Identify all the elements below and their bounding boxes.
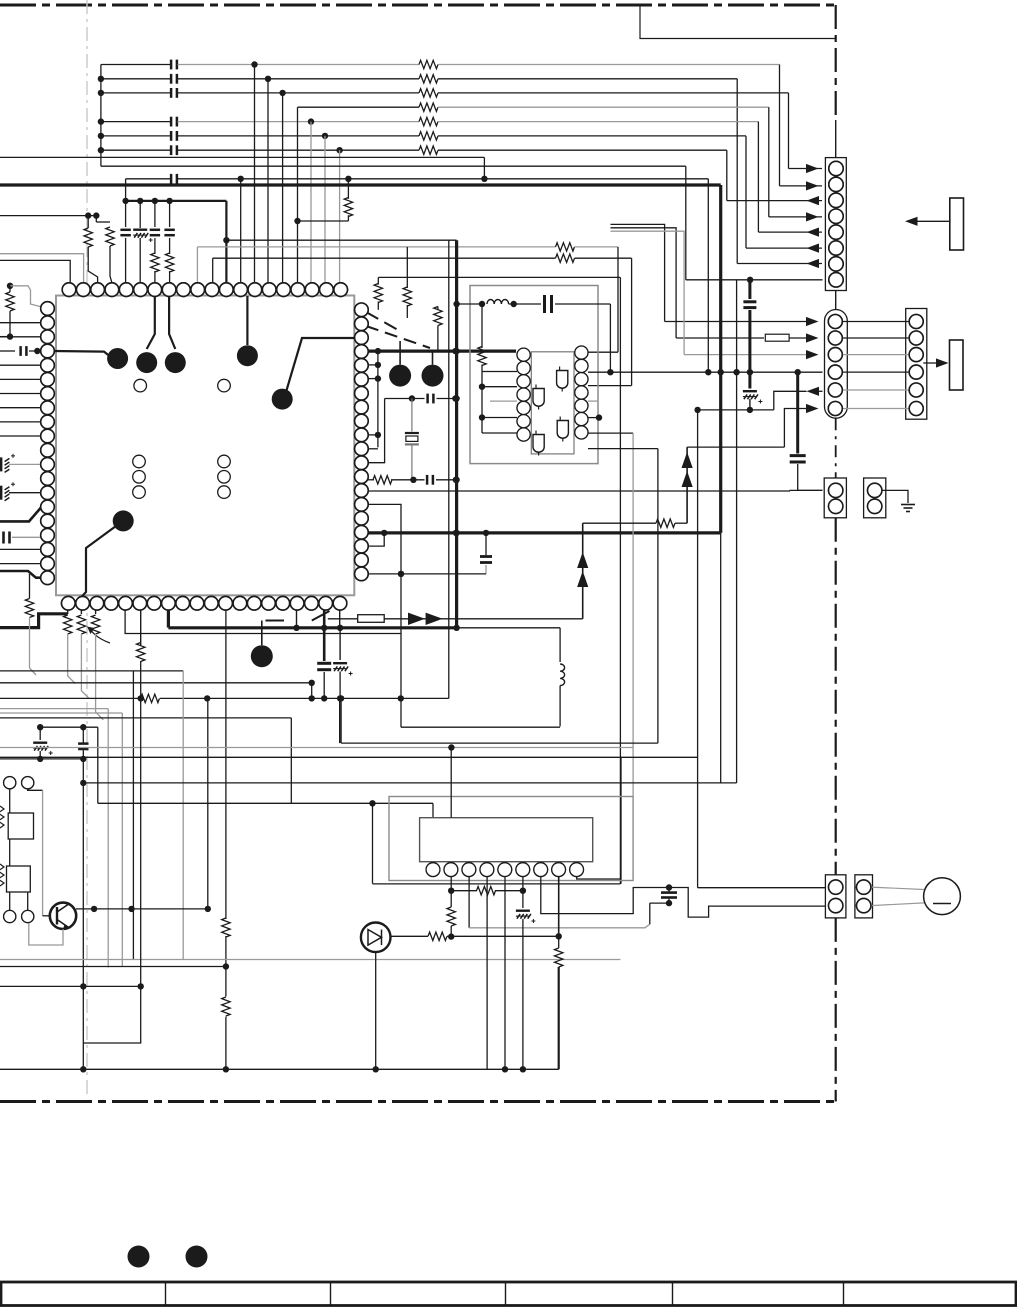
junction J43 bbox=[453, 348, 459, 354]
wire line7 left bbox=[101, 149, 171, 151]
wire bbox=[558, 936, 560, 948]
junction J55 bbox=[718, 369, 724, 375]
crystal X1 bbox=[405, 432, 419, 434]
wire net34 bbox=[82, 759, 84, 1069]
wire (heavy) bbox=[0, 507, 47, 522]
wire line1 left bbox=[101, 64, 171, 66]
wire bbox=[391, 935, 429, 937]
wire bbox=[583, 522, 656, 524]
wire net16 end bbox=[790, 489, 823, 492]
wire line5 drop bbox=[757, 122, 759, 233]
resistor R2 bbox=[419, 75, 438, 83]
resistor R30 bbox=[555, 948, 563, 967]
wire row2 bbox=[611, 228, 677, 338]
wire from block bbox=[917, 220, 949, 222]
adjust arrow bbox=[90, 629, 110, 643]
connector CN3 (6-pin header) bbox=[906, 309, 927, 420]
wire line1 right bbox=[438, 64, 780, 66]
shield boundary (gray dash-dot) bbox=[86, 0, 88, 1099]
wire to U1 pin bbox=[0, 548, 48, 550]
wire to CN4 bbox=[798, 464, 823, 490]
wire bbox=[609, 304, 611, 372]
wire bbox=[29, 350, 48, 352]
wire line2 drop bbox=[736, 79, 738, 264]
wire bbox=[559, 686, 561, 727]
right dash-dot border segment bbox=[835, 418, 837, 478]
wire (heavy) bbox=[558, 967, 560, 1069]
junction J85 bbox=[448, 888, 454, 894]
junction J18 bbox=[93, 212, 99, 218]
wire bbox=[522, 919, 524, 1069]
wire net37 bbox=[0, 966, 226, 968]
capacitor C29 bbox=[661, 891, 677, 894]
wire net13b bbox=[575, 246, 619, 248]
U2 inner frame bbox=[531, 352, 574, 454]
junction J75 bbox=[37, 756, 43, 762]
wire vdd row bbox=[126, 200, 227, 202]
wire to U1 pin bbox=[0, 378, 48, 380]
wire line5 left bbox=[101, 121, 171, 123]
wire U3 pin6 bbox=[522, 877, 524, 909]
wire line5 mid bbox=[178, 121, 420, 123]
wire net10 right bbox=[178, 178, 709, 180]
wire bbox=[140, 698, 142, 986]
wire kink bbox=[96, 634, 104, 720]
wire stub (heavy) bbox=[167, 610, 170, 628]
capacitor C16 bbox=[2, 532, 5, 544]
wire CN2-CN3 link bbox=[842, 389, 909, 391]
junction J73 bbox=[37, 724, 43, 730]
wire to U3 pin2 bbox=[450, 748, 452, 818]
wire net18 (heavy) bbox=[368, 531, 721, 534]
junction J65 bbox=[309, 680, 315, 686]
arrowhead out of CN1 pin bbox=[807, 196, 820, 205]
junction J27 bbox=[375, 348, 381, 354]
wire U2 out bbox=[588, 432, 633, 434]
wire with polarity arrows bbox=[686, 447, 688, 523]
wire bbox=[411, 444, 413, 479]
wire bbox=[27, 892, 29, 910]
junction J14 bbox=[238, 176, 244, 182]
wire line7 drop bbox=[726, 150, 728, 200]
junction J19 bbox=[122, 198, 128, 204]
junction J88 bbox=[502, 1066, 508, 1072]
resistor R4 bbox=[419, 103, 438, 111]
wire bbox=[39, 727, 41, 740]
wire bbox=[87, 216, 89, 228]
wire net8 drop bbox=[483, 157, 485, 178]
wire row1 bbox=[611, 224, 665, 321]
wire drop to U1 pin bbox=[240, 179, 242, 283]
junction J52 bbox=[607, 369, 613, 375]
junction J17 bbox=[85, 212, 91, 218]
wire bbox=[298, 220, 349, 222]
wire bbox=[377, 302, 379, 310]
junction J61 bbox=[293, 625, 299, 631]
junction J53 bbox=[596, 414, 602, 420]
wire bbox=[12, 536, 44, 538]
junction J71 bbox=[205, 906, 211, 912]
junction J54 bbox=[705, 369, 711, 375]
wire CN1 to CN2 bbox=[835, 291, 837, 310]
wire stub bbox=[368, 378, 378, 380]
block connector B2 bbox=[950, 198, 964, 250]
wire net26 bbox=[0, 670, 183, 672]
resistor R6 bbox=[419, 132, 438, 140]
wire line1 mid bbox=[178, 64, 420, 66]
resistor R14 bbox=[403, 287, 411, 306]
wire W2 bbox=[225, 936, 227, 997]
junction J41 bbox=[398, 571, 404, 577]
junction J35 bbox=[453, 477, 459, 483]
wire stub bbox=[368, 533, 384, 546]
junction J81 bbox=[448, 744, 454, 750]
wire bbox=[495, 890, 523, 892]
wire to U1 pin2 bbox=[0, 254, 84, 283]
junction J46 bbox=[453, 530, 459, 536]
wire U2 out bbox=[588, 371, 610, 373]
wire net31 drop bbox=[182, 671, 184, 960]
wire U1 interior bbox=[246, 296, 248, 345]
wire net8 bbox=[0, 156, 484, 158]
junction J3 bbox=[98, 118, 104, 124]
resistor R10 bbox=[106, 227, 114, 246]
wire bbox=[323, 672, 325, 698]
wire row1 to CN2 bbox=[665, 321, 810, 323]
junction J56 bbox=[733, 369, 739, 375]
wire cap return down bbox=[649, 903, 651, 924]
capacitor C13 bbox=[19, 346, 22, 356]
arrowhead row2 bbox=[806, 333, 819, 342]
shield box around U3 bbox=[389, 797, 633, 881]
junction J4 bbox=[98, 133, 104, 139]
wire U2 out bbox=[588, 417, 599, 419]
wire bbox=[391, 479, 425, 481]
wire bbox=[668, 888, 670, 893]
wire bbox=[9, 839, 11, 866]
capacitor C19 bbox=[480, 555, 492, 558]
junction J31 bbox=[375, 432, 381, 438]
junction J7 bbox=[265, 76, 271, 82]
ground bbox=[901, 504, 915, 506]
capacitor C14 (electrolytic) bbox=[0, 457, 2, 471]
wire U1 interior bbox=[53, 351, 112, 358]
U1 top pins bbox=[62, 283, 76, 297]
wire Q1 collector net bbox=[76, 908, 208, 910]
wire bbox=[437, 326, 439, 352]
wire bbox=[140, 610, 142, 645]
wire bbox=[450, 926, 452, 937]
resistor R26 bbox=[0, 806, 4, 828]
junction J9 bbox=[308, 118, 314, 124]
wire net28 bbox=[0, 697, 140, 699]
wire bus drop to U1 pin bbox=[339, 150, 341, 283]
wire bbox=[451, 890, 477, 892]
wire bbox=[377, 277, 379, 284]
wire bbox=[485, 565, 487, 574]
wire line2 right bbox=[438, 78, 737, 80]
wire motor link- bbox=[871, 903, 924, 906]
test point TP6 bbox=[113, 510, 134, 531]
wire stub bbox=[339, 610, 341, 628]
junction J20 bbox=[137, 198, 143, 204]
capacitor C28 (electrolytic) bbox=[516, 910, 530, 912]
wire Q1 emitter bbox=[29, 923, 63, 945]
wire to U2 bbox=[490, 400, 517, 402]
wire to U1 pin bbox=[0, 364, 48, 366]
polarity arrow A4 bbox=[577, 571, 588, 587]
wire bbox=[29, 574, 31, 599]
IC U2 (dual comparator) bbox=[517, 348, 530, 361]
wire net22 bbox=[657, 449, 659, 743]
wire net11 tail bbox=[720, 533, 722, 783]
wire bbox=[411, 399, 413, 432]
junction J39 bbox=[453, 530, 459, 536]
resistor R5 bbox=[419, 117, 438, 125]
wire to ground bbox=[882, 490, 908, 503]
wire net35 bbox=[98, 802, 433, 804]
resistor R34 bbox=[222, 918, 230, 937]
wire net30 drop bbox=[121, 713, 123, 967]
wire net33 drop bbox=[290, 718, 292, 803]
connector CN1 (8-pin) bbox=[825, 158, 846, 291]
resistor R25 bbox=[141, 694, 160, 702]
wire with polarity arrows bbox=[582, 523, 584, 619]
capacitor C12 bbox=[164, 229, 174, 232]
dashed link to resonator X1 (2) bbox=[366, 326, 430, 348]
wire bbox=[0, 215, 96, 217]
wire line7 right bbox=[438, 149, 727, 151]
U2 gate A bbox=[533, 389, 544, 407]
resistor R27 bbox=[0, 864, 4, 886]
connector CN8 (2-pin) bbox=[825, 875, 846, 918]
right dash-dot border segment bbox=[835, 518, 837, 875]
inductor L2 bbox=[560, 664, 565, 686]
wire (heavy) bbox=[796, 372, 799, 453]
wire net31 bbox=[0, 717, 291, 719]
resistor R20 bbox=[64, 615, 72, 634]
wire stub bbox=[368, 448, 378, 450]
capacitor C6 bbox=[170, 131, 173, 141]
wire net21 bbox=[632, 433, 634, 796]
wire bbox=[555, 303, 610, 305]
transistor Q1 bbox=[50, 903, 76, 929]
junction J77 bbox=[80, 780, 86, 786]
capacitor C21 bbox=[743, 300, 756, 303]
wire row5 bbox=[774, 391, 807, 410]
junction J10 bbox=[322, 133, 328, 139]
wire bbox=[40, 726, 98, 728]
wire bbox=[509, 303, 541, 305]
junction J12 bbox=[294, 218, 300, 224]
wire net39 bbox=[469, 924, 650, 928]
wire stub bbox=[80, 610, 82, 614]
wire net11 drop (heavy) bbox=[719, 185, 722, 372]
junction J37 bbox=[398, 695, 404, 701]
resistor R24 bbox=[137, 643, 145, 662]
switch block S2 bbox=[8, 813, 33, 839]
wire cap return bbox=[650, 902, 669, 904]
inductor L1 bbox=[487, 300, 509, 305]
capacitor C2 bbox=[170, 74, 173, 84]
wire net9 bbox=[101, 165, 686, 167]
wire to U1 pin bbox=[0, 393, 48, 395]
wire line3 into CN1 bbox=[789, 168, 823, 170]
junction J13 bbox=[747, 277, 753, 283]
junction J47 bbox=[453, 625, 459, 631]
wire bbox=[450, 877, 452, 891]
wire bbox=[154, 271, 156, 283]
wire bbox=[125, 201, 127, 227]
wire to U1 pin bbox=[0, 563, 48, 565]
wire bbox=[437, 307, 439, 310]
junction J28 bbox=[452, 348, 458, 354]
wire bbox=[42, 790, 44, 916]
wire bbox=[154, 201, 156, 227]
junction J22 bbox=[166, 198, 172, 204]
resistor R13 bbox=[374, 284, 382, 303]
junction J15 bbox=[345, 176, 351, 182]
test point TP5 bbox=[272, 389, 293, 410]
wire stub bbox=[67, 610, 69, 614]
capacitor C25 (electrolytic) bbox=[333, 662, 347, 664]
capacitor C9 bbox=[120, 229, 130, 232]
wire line6 left bbox=[101, 135, 171, 137]
wire to U1 pin bbox=[110, 246, 112, 283]
junction J79 bbox=[138, 983, 144, 989]
arrowhead row1 bbox=[806, 317, 819, 326]
wire bbox=[450, 891, 452, 907]
wire net20 (vertical) bbox=[448, 240, 450, 698]
wire kink bbox=[30, 668, 37, 675]
arrowhead into CN1 pin bbox=[806, 181, 819, 190]
wire bbox=[9, 286, 11, 292]
wire net24 bbox=[698, 409, 774, 411]
wire U1 interior bbox=[81, 526, 116, 597]
wire net17 down bbox=[620, 757, 622, 884]
wire row3 bbox=[611, 231, 685, 354]
wire bbox=[406, 247, 408, 288]
wire line4 right bbox=[438, 106, 769, 108]
wire line6 right bbox=[438, 135, 746, 137]
arrowhead row3 bbox=[806, 350, 819, 359]
pin overlay U1 bbox=[62, 283, 76, 297]
wire to U1 pin bbox=[0, 421, 48, 423]
wire bbox=[436, 479, 457, 481]
capacitor C22 (electrolytic) bbox=[743, 390, 757, 392]
wire net10 drop2 bbox=[707, 179, 709, 372]
wire bbox=[9, 892, 11, 910]
wire bbox=[339, 698, 341, 743]
wire (heavy) bbox=[0, 614, 68, 628]
junction J93 bbox=[666, 884, 672, 890]
junction J40 bbox=[483, 530, 489, 536]
wire bbox=[169, 238, 171, 254]
wire bbox=[481, 365, 483, 434]
capacitor C18 bbox=[426, 475, 429, 485]
capacitor C26 (electrolytic) bbox=[33, 742, 47, 744]
junction J33 bbox=[452, 395, 458, 401]
wire bbox=[154, 238, 156, 254]
wire to U2 bbox=[482, 386, 517, 388]
wire line4 into CN1 bbox=[769, 216, 822, 218]
wire bbox=[339, 672, 341, 699]
U1 left pins bbox=[41, 302, 55, 316]
resistor R1 bbox=[419, 60, 438, 68]
resistor R32 bbox=[556, 243, 575, 251]
wire bbox=[139, 238, 141, 283]
junction J60 bbox=[694, 407, 700, 413]
wire motor+ to CN8 bbox=[698, 887, 829, 889]
wire line3 left bbox=[101, 92, 171, 94]
ferrite bead FB1 bbox=[765, 334, 789, 341]
resistor R22 bbox=[91, 615, 99, 634]
resistor R11 bbox=[151, 253, 159, 272]
junction J32 bbox=[409, 395, 415, 401]
junction J44 bbox=[453, 395, 459, 401]
wire net13 bbox=[197, 246, 555, 248]
junction J76 bbox=[80, 756, 86, 762]
wire bbox=[9, 789, 11, 813]
wire bbox=[0, 336, 10, 338]
junction J94 bbox=[666, 900, 672, 906]
wire U1 interior bbox=[147, 296, 155, 349]
wire bbox=[82, 727, 84, 743]
switch block S3 bbox=[7, 866, 31, 892]
wire to U2 bbox=[482, 432, 517, 434]
polarity arrow A2 bbox=[682, 471, 693, 487]
polarity arrow A3 bbox=[577, 552, 588, 568]
wire row4 bus bbox=[610, 371, 822, 373]
resistor R9 bbox=[84, 228, 92, 247]
junction J51 bbox=[479, 414, 485, 420]
test point TP4 bbox=[237, 345, 258, 366]
junction J78 bbox=[80, 983, 86, 989]
wire bbox=[675, 522, 687, 524]
wire stub bbox=[296, 610, 298, 628]
wire line3 mid bbox=[178, 92, 420, 94]
marker dot 2 bbox=[186, 1246, 208, 1268]
test point TP9 bbox=[251, 645, 273, 667]
wire bbox=[28, 789, 43, 790]
wire line2 into CN1 bbox=[737, 263, 822, 265]
wire line2 mid bbox=[178, 78, 420, 80]
wire net11 continue (heavy) bbox=[719, 372, 722, 533]
wire bbox=[323, 628, 326, 661]
wire CN2-CN3 link bbox=[842, 371, 909, 373]
wire net29 drop bbox=[107, 709, 109, 968]
wire bus drop to U1 pin bbox=[310, 122, 312, 283]
wire U3 pin5... bbox=[504, 877, 506, 1070]
resistor R12 bbox=[165, 253, 173, 272]
junction J26 bbox=[34, 348, 40, 354]
wire bbox=[125, 238, 127, 283]
wire bbox=[432, 350, 434, 365]
wire U3 pin9 bbox=[577, 877, 621, 880]
wire CN2-CN3 link bbox=[842, 337, 909, 339]
wire net17 bbox=[368, 504, 401, 727]
wire net14b bbox=[575, 257, 632, 259]
junction J89 bbox=[520, 1066, 526, 1072]
wire bbox=[169, 271, 171, 283]
wire net9 to CN1 pin8 bbox=[686, 279, 823, 281]
wire bbox=[29, 618, 31, 669]
pin overlay U2 bbox=[517, 348, 530, 361]
capacitor C27 bbox=[78, 742, 88, 745]
block connector B1 bbox=[950, 340, 964, 390]
wire bbox=[9, 463, 48, 465]
resistor R3 bbox=[419, 89, 438, 97]
